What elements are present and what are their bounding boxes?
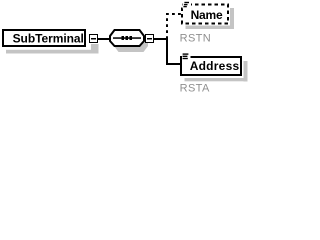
expand button right (minus) [146,35,154,43]
element box SubTerminal [3,30,85,46]
svg-text:RSTN: RSTN [180,33,212,45]
element box Name shadow [186,8,235,29]
svg-text:SubTerminal: SubTerminal [13,32,84,46]
element box Address [181,57,241,75]
sequence compositor octagon [110,30,144,46]
expand button left (minus) shadow [91,44,99,54]
svg-text:RSTA: RSTA [180,83,210,95]
svg-text:Name: Name [191,8,223,22]
type icon (text content) on Name [183,1,192,9]
wire sequence to branch trunk [154,38,168,40]
type icon (text content) on Address [182,52,191,60]
wire collapse-button to sequence [98,38,110,40]
element box Address shadow [185,61,248,82]
branch trunk solid (down to Address) [166,38,168,65]
svg-text:Address: Address [190,59,240,73]
element box Name (optional, dashed) [182,5,228,24]
wire stub to Address [166,63,181,65]
sequence compositor shadow [114,35,148,52]
expand button left (minus) [90,35,98,43]
element box SubTerminal shadow [6,50,91,54]
sequence dots line [113,37,141,39]
sequence dots [122,36,132,40]
branch trunk dashed (up to Name) [167,14,182,39]
